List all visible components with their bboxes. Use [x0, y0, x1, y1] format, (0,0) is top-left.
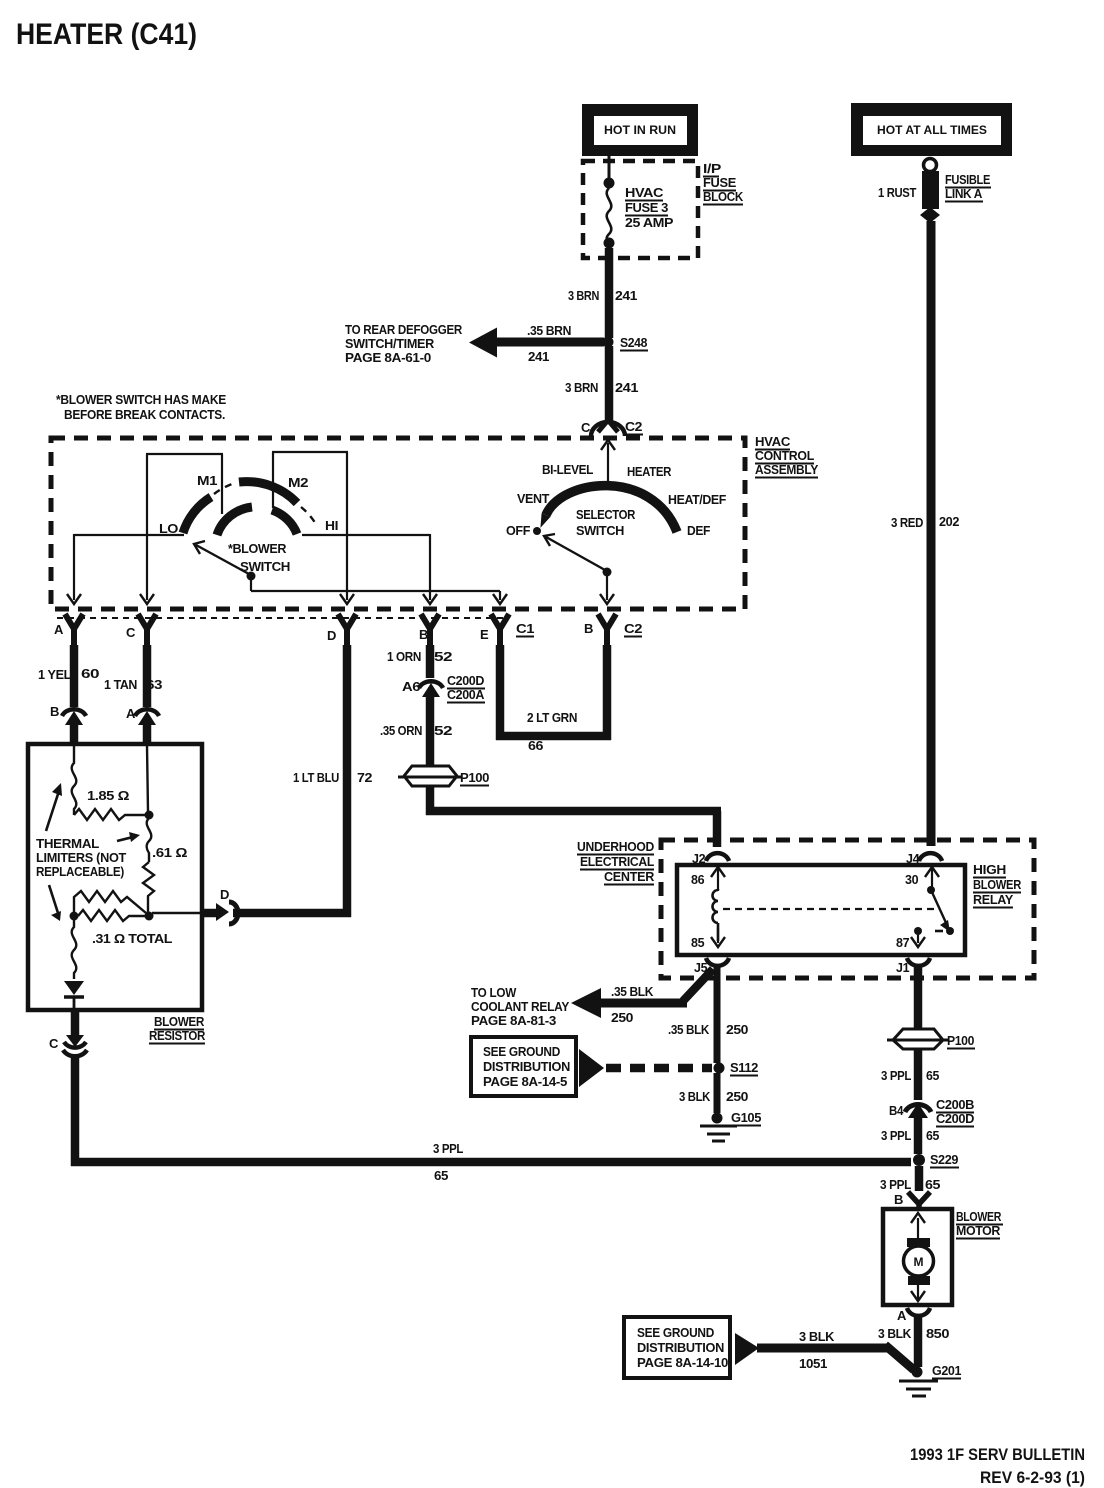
- svg-text:B: B: [894, 1192, 903, 1207]
- blower switch inner contact arc right: [272, 510, 297, 534]
- blower switch inner contact arc left: [217, 507, 252, 535]
- label C200B C200D: [936, 1097, 974, 1127]
- svg-text:.35 ORN: .35 ORN: [380, 723, 422, 738]
- svg-text:PAGE 8A-61-0: PAGE 8A-61-0: [345, 351, 431, 365]
- svg-text:TO REAR DEFOGGER: TO REAR DEFOGGER: [345, 323, 462, 337]
- wire 3 RED 202: [927, 221, 936, 846]
- svg-text:A: A: [126, 706, 136, 721]
- svg-text:87: 87: [896, 936, 910, 950]
- svg-text:J1: J1: [896, 961, 910, 975]
- svg-text:241: 241: [615, 288, 637, 303]
- wire .35 BRN 241 to rear defogger (arrow): [469, 328, 604, 358]
- power box HOT AT ALL TIMES: [851, 103, 1012, 156]
- connector P100 (right): [887, 1029, 949, 1049]
- svg-text:FUSIBLE: FUSIBLE: [945, 172, 991, 187]
- high blower relay box: [677, 865, 965, 955]
- svg-text:P100: P100: [947, 1033, 974, 1048]
- wire 3 PPL 65 resistor to S229: [71, 1058, 911, 1166]
- connector J4: [919, 853, 942, 861]
- resistor 1.85 ohm: [74, 809, 149, 820]
- svg-text:A: A: [897, 1308, 907, 1323]
- diode: [64, 981, 84, 1008]
- ground G105: [700, 1113, 737, 1142]
- wire 1 LT BLU 72 pin D down to resistor pin D: [233, 645, 351, 917]
- wire resistor pin C output: [71, 1010, 80, 1038]
- blower switch wiper arm: [194, 541, 256, 581]
- svg-text:250: 250: [726, 1022, 748, 1037]
- label HVAC CONTROL ASSEMBLY: [755, 435, 819, 478]
- svg-text:3 BLK: 3 BLK: [799, 1329, 835, 1344]
- ground distribution arrow 2: [735, 1333, 759, 1365]
- thermal limiter 1: [72, 746, 77, 815]
- note BLOWER SWITCH HAS MAKE BEFORE BREAK CONTACTS: [56, 393, 226, 422]
- svg-text:65: 65: [925, 1177, 940, 1192]
- svg-text:HEAT/DEF: HEAT/DEF: [668, 492, 726, 507]
- splice S229: [913, 1154, 925, 1166]
- svg-text:241: 241: [528, 349, 549, 364]
- svg-text:REV 6-2-93 (1): REV 6-2-93 (1): [980, 1468, 1085, 1487]
- svg-text:C200D: C200D: [936, 1111, 974, 1126]
- relay pin 87 arrow: [911, 932, 925, 947]
- svg-text:1 LT BLU: 1 LT BLU: [293, 770, 339, 785]
- connector pin C of C1: [138, 614, 156, 649]
- svg-text:2 LT GRN: 2 LT GRN: [527, 710, 577, 725]
- svg-text:VENT: VENT: [517, 491, 549, 506]
- blower switch outer contact arc M2: [239, 482, 297, 503]
- svg-text:1 RUST: 1 RUST: [878, 185, 916, 200]
- wire selector wiper to pin B of C2: [600, 576, 614, 604]
- svg-text:MOTOR: MOTOR: [956, 1223, 1001, 1238]
- svg-text:M: M: [914, 1255, 924, 1269]
- svg-text:M2: M2: [288, 475, 308, 490]
- fusible link A: [920, 159, 940, 224]
- svg-text:SWITCH: SWITCH: [576, 523, 624, 538]
- svg-text:BLOWER: BLOWER: [956, 1209, 1002, 1224]
- svg-text:I/P: I/P: [703, 162, 721, 176]
- wire into resistor box (A leg): [70, 722, 79, 746]
- connector J2: [706, 853, 729, 861]
- node at top of .61 ohm: [145, 811, 154, 820]
- HVAC control assembly dashed box: [51, 438, 745, 609]
- svg-text:C200B: C200B: [936, 1097, 974, 1112]
- blower switch dashed arc segment 2: [301, 507, 317, 526]
- svg-text:G201: G201: [932, 1363, 961, 1378]
- svg-text:HEATER: HEATER: [627, 464, 672, 479]
- connector pin D of C1: [338, 614, 356, 649]
- svg-text:65: 65: [926, 1128, 939, 1143]
- svg-text:65: 65: [434, 1168, 448, 1183]
- svg-text:C1: C1: [516, 621, 534, 636]
- connector pin E of C1: [491, 614, 509, 649]
- svg-text:BEFORE BREAK CONTACTS.: BEFORE BREAK CONTACTS.: [64, 408, 225, 422]
- underhood electrical center dashed box: [661, 840, 1034, 978]
- svg-text:3 PPL: 3 PPL: [881, 1068, 911, 1083]
- svg-text:B: B: [584, 621, 593, 636]
- svg-text:HVAC: HVAC: [755, 435, 790, 449]
- wire 3 PPL 65 C200B to S229: [914, 1115, 923, 1154]
- svg-text:A: A: [54, 622, 64, 637]
- relay mechanical link dashed: [723, 908, 938, 910]
- wire selector arc to connector C2 pin C: [601, 440, 615, 487]
- label C200D C200A: [447, 673, 485, 703]
- svg-text:TO LOW: TO LOW: [471, 986, 516, 1000]
- wire .35 BLK 250 J5 to S112: [714, 966, 721, 1063]
- svg-text:.35 BLK: .35 BLK: [668, 1022, 710, 1037]
- svg-text:C2: C2: [624, 621, 642, 636]
- svg-text:52: 52: [434, 723, 452, 738]
- wire 1 ORN 52 pin B down: [426, 645, 435, 678]
- svg-text:C: C: [581, 420, 591, 435]
- svg-text:3 BLK: 3 BLK: [878, 1326, 912, 1341]
- blower motor box: [883, 1209, 952, 1305]
- svg-text:ELECTRICAL: ELECTRICAL: [580, 855, 655, 869]
- svg-text:S229: S229: [930, 1152, 958, 1167]
- wire 3 PPL 65 S229 to blower motor: [915, 1166, 924, 1191]
- svg-text:SWITCH: SWITCH: [240, 559, 290, 574]
- svg-text:FUSE: FUSE: [703, 176, 736, 190]
- wire 2 LT GRN 66 pin E C1 to pin B C2: [496, 645, 611, 740]
- svg-text:M1: M1: [197, 473, 217, 488]
- motor M symbol: [904, 1213, 934, 1301]
- splice S248: [603, 337, 614, 348]
- wire node to resistor pin D: [152, 912, 204, 914]
- wire .35 ORN 52: [426, 694, 435, 766]
- svg-text:3 BRN: 3 BRN: [565, 380, 598, 395]
- svg-text:D: D: [220, 887, 229, 902]
- wire 1 YEL 60 pin A to blower resistor: [70, 645, 79, 707]
- relay pin 86 arrow: [711, 867, 725, 891]
- wire pin C leg into node: [147, 746, 148, 812]
- svg-text:1 YEL: 1 YEL: [38, 667, 71, 682]
- svg-text:HEATER (C41): HEATER (C41): [16, 18, 197, 51]
- resistor .61 ohm: [143, 862, 154, 913]
- svg-text:CENTER: CENTER: [604, 870, 654, 884]
- box SEE GROUND DISTRIBUTION PAGE 8A-14-5: [471, 1037, 576, 1096]
- svg-text:COOLANT RELAY: COOLANT RELAY: [471, 1000, 570, 1014]
- label I/P FUSE BLOCK: [703, 162, 743, 205]
- svg-text:BLOCK: BLOCK: [703, 190, 743, 204]
- svg-text:RESISTOR: RESISTOR: [149, 1028, 206, 1043]
- blower switch outer contact arc M1: [183, 497, 211, 533]
- wire M2 loop to pin D: [272, 452, 354, 604]
- svg-text:65: 65: [926, 1068, 939, 1083]
- relay pin 85 arrow: [711, 928, 725, 947]
- resistor .31 ohm upper: [74, 891, 146, 914]
- label UNDERHOOD ELECTRICAL CENTER: [577, 840, 655, 885]
- svg-text:RELAY: RELAY: [973, 893, 1014, 907]
- wire wiper feed to pin E: [251, 576, 507, 604]
- svg-text:HI: HI: [325, 518, 338, 533]
- svg-text:PAGE 8A-14-5: PAGE 8A-14-5: [483, 1075, 567, 1089]
- wire 3 BLK 1051 to G201: [757, 1345, 914, 1370]
- svg-text:SEE GROUND: SEE GROUND: [637, 1326, 714, 1340]
- resistor .31 ohm lower: [78, 910, 145, 921]
- svg-text:DISTRIBUTION: DISTRIBUTION: [483, 1060, 570, 1074]
- svg-text:3 BRN: 3 BRN: [568, 288, 599, 303]
- svg-text:B: B: [50, 704, 59, 719]
- thermal limiter 3: [72, 920, 77, 979]
- connector C1 face dashed line: [57, 617, 506, 619]
- svg-text:C: C: [126, 625, 136, 640]
- svg-text:3 PPL: 3 PPL: [881, 1128, 911, 1143]
- relay coil: [713, 889, 719, 941]
- svg-text:J2: J2: [692, 852, 706, 866]
- svg-text:J4: J4: [906, 852, 920, 866]
- svg-text:1051: 1051: [799, 1356, 827, 1371]
- label BLOWER MOTOR: [956, 1209, 1003, 1239]
- svg-text:850: 850: [926, 1326, 949, 1341]
- svg-text:60: 60: [81, 666, 99, 681]
- svg-text:63: 63: [146, 677, 162, 692]
- wire from HOT IN RUN into fuse block: [608, 156, 611, 180]
- svg-text:BI-LEVEL: BI-LEVEL: [542, 462, 593, 477]
- arrow to thermal limiter 3: [49, 885, 61, 921]
- connector pin D of blower resistor: [202, 902, 238, 924]
- relay pin 30 lead: [925, 867, 939, 889]
- connector pin A of blower resistor: [135, 709, 159, 725]
- svg-text:OFF: OFF: [506, 523, 530, 538]
- connector pin B of blower resistor: [62, 709, 86, 725]
- wire 1 TAN 63 pin C to blower resistor: [143, 645, 152, 707]
- svg-text:72: 72: [357, 770, 372, 785]
- svg-text:*BLOWER: *BLOWER: [228, 541, 287, 556]
- svg-text:.35 BLK: .35 BLK: [611, 984, 654, 999]
- splice S112: [714, 1063, 725, 1074]
- blower resistor box: [28, 744, 202, 1010]
- connector pin B of blower motor: [908, 1192, 930, 1210]
- svg-text:250: 250: [726, 1089, 748, 1104]
- svg-text:1 ORN: 1 ORN: [387, 649, 421, 664]
- svg-text:CONTROL: CONTROL: [755, 449, 815, 463]
- svg-text:BLOWER: BLOWER: [154, 1014, 205, 1029]
- wire M1 loop to pin C: [140, 454, 223, 604]
- svg-text:C200D: C200D: [447, 673, 484, 688]
- ground G201: [899, 1367, 938, 1397]
- svg-text:HVAC: HVAC: [625, 185, 664, 200]
- selector wiper arm: [544, 534, 612, 577]
- svg-text:*BLOWER SWITCH HAS MAKE: *BLOWER SWITCH HAS MAKE: [56, 393, 226, 407]
- svg-text:D: D: [327, 628, 336, 643]
- svg-text:ASSEMBLY: ASSEMBLY: [755, 463, 819, 477]
- connector pin B of C2: [598, 614, 616, 649]
- label HVAC FUSE 3 25 AMP: [625, 185, 674, 230]
- connector C2 pin C at HVAC control assembly: [591, 420, 625, 436]
- label FUSIBLE LINK A: [945, 172, 991, 202]
- svg-text:BLOWER: BLOWER: [973, 878, 1021, 892]
- svg-text:P100: P100: [460, 770, 489, 785]
- svg-text:DISTRIBUTION: DISTRIBUTION: [637, 1341, 724, 1355]
- svg-text:25 AMP: 25 AMP: [625, 215, 674, 230]
- svg-text:THERMAL: THERMAL: [36, 837, 100, 851]
- svg-text:REPLACEABLE): REPLACEABLE): [36, 865, 124, 879]
- svg-text:S248: S248: [620, 335, 647, 350]
- svg-text:C200A: C200A: [447, 687, 485, 702]
- note TO LOW COOLANT RELAY PAGE 8A-81-3: [471, 986, 570, 1028]
- label SELECTOR SWITCH: [576, 507, 636, 538]
- selector OFF contact dot: [533, 527, 541, 535]
- svg-text:.61 Ω: .61 Ω: [152, 845, 187, 860]
- wire into resistor box (C leg): [143, 722, 152, 746]
- wire 3 PPL 65 P100 to C200B: [914, 1049, 923, 1100]
- svg-text:C: C: [49, 1036, 59, 1051]
- svg-text:LO: LO: [159, 521, 178, 536]
- label *BLOWER SWITCH: [228, 541, 290, 574]
- svg-text:S112: S112: [730, 1060, 758, 1075]
- svg-text:HOT AT ALL TIMES: HOT AT ALL TIMES: [877, 125, 987, 137]
- connector pin A of C1: [65, 614, 83, 649]
- note TO REAR DEFOGGER SWITCH/TIMER PAGE 8A-61-0: [345, 323, 462, 365]
- arrow to thermal limiter 2: [117, 832, 140, 842]
- svg-text:SWITCH/TIMER: SWITCH/TIMER: [345, 337, 434, 351]
- svg-text:A6: A6: [402, 679, 420, 694]
- svg-text:.31 Ω TOTAL: .31 Ω TOTAL: [92, 931, 172, 946]
- svg-text:C2: C2: [625, 419, 642, 434]
- svg-text:.35 BRN: .35 BRN: [527, 323, 571, 338]
- svg-text:3 PPL: 3 PPL: [433, 1141, 463, 1156]
- connector pin C of blower resistor: [63, 1035, 87, 1056]
- svg-text:241: 241: [615, 380, 638, 395]
- svg-text:66: 66: [528, 738, 543, 753]
- connector A6 C200D C200A: [419, 681, 443, 697]
- connector pin B of C1: [421, 614, 439, 649]
- svg-text:E: E: [480, 627, 489, 642]
- connector P100 (left): [398, 766, 462, 786]
- svg-text:202: 202: [939, 514, 959, 529]
- svg-text:DEF: DEF: [687, 523, 710, 538]
- arrow to thermal limiter 1: [46, 783, 62, 831]
- svg-text:B: B: [419, 627, 428, 642]
- relay switch blade: [914, 886, 954, 935]
- svg-text:SELECTOR: SELECTOR: [576, 507, 636, 522]
- thermal limiter 2: [147, 818, 152, 862]
- svg-text:250: 250: [611, 1010, 633, 1025]
- svg-text:LINK A: LINK A: [945, 186, 983, 201]
- connector J1: [907, 958, 930, 966]
- svg-text:1.85 Ω: 1.85 Ω: [87, 788, 129, 803]
- svg-text:HIGH: HIGH: [973, 863, 1006, 877]
- dashed wire to S112: [606, 1064, 712, 1073]
- svg-text:G105: G105: [731, 1110, 761, 1125]
- svg-text:PAGE 8A-81-3: PAGE 8A-81-3: [471, 1014, 556, 1028]
- svg-text:UNDERHOOD: UNDERHOOD: [577, 840, 654, 854]
- I/P fuse block dashed box: [583, 161, 698, 258]
- label BLOWER RESISTOR: [149, 1014, 206, 1044]
- svg-text:52: 52: [434, 649, 452, 664]
- wire .35 ORN to J2 of underhood electrical center: [426, 786, 721, 847]
- connector J5: [706, 958, 729, 966]
- wire HI to pin B: [302, 534, 437, 604]
- svg-text:1993 1F SERV BULLETIN: 1993 1F SERV BULLETIN: [910, 1445, 1085, 1464]
- wire 3 BRN 241 lower segment: [605, 346, 614, 421]
- wire 3 BLK 850 motor to G201: [914, 1315, 923, 1367]
- svg-text:85: 85: [691, 936, 705, 950]
- svg-text:PAGE 8A-14-10: PAGE 8A-14-10: [637, 1356, 728, 1370]
- svg-text:HOT IN RUN: HOT IN RUN: [604, 125, 676, 137]
- fuse HVAC FUSE 3 25 AMP: [604, 178, 615, 249]
- svg-text:3 RED: 3 RED: [891, 515, 923, 530]
- svg-text:3 BLK: 3 BLK: [679, 1089, 711, 1104]
- connector B4 C200B C200D: [905, 1103, 931, 1118]
- svg-text:SEE GROUND: SEE GROUND: [483, 1045, 560, 1059]
- wire 3 BRN 241 upper segment: [605, 248, 614, 338]
- connector pin A of blower motor: [907, 1308, 930, 1316]
- label HIGH BLOWER RELAY: [973, 863, 1021, 908]
- wire J1 to P100: [914, 966, 923, 1030]
- node left of .31 ohm: [70, 912, 79, 921]
- svg-text:86: 86: [691, 873, 705, 887]
- power box HOT IN RUN: [582, 104, 698, 156]
- blower switch dashed arc segment 1: [214, 484, 232, 494]
- box SEE GROUND DISTRIBUTION PAGE 8A-14-10: [624, 1317, 730, 1378]
- svg-text:FUSE 3: FUSE 3: [625, 200, 668, 215]
- selector switch contact arc: [546, 486, 677, 532]
- wire LO to pin A: [67, 534, 184, 604]
- svg-text:30: 30: [905, 873, 919, 887]
- ground distribution arrow: [579, 1049, 604, 1087]
- node at bottom of .61 ohm: [145, 912, 154, 921]
- svg-text:B4: B4: [889, 1103, 904, 1118]
- svg-text:LIMITERS (NOT: LIMITERS (NOT: [36, 851, 127, 865]
- wire .35 BLK branch to low coolant relay: [571, 969, 713, 1018]
- svg-text:1 TAN: 1 TAN: [104, 677, 137, 692]
- wire 3 BLK 250 S112 to G105: [714, 1073, 721, 1113]
- svg-text:3 PPL: 3 PPL: [880, 1177, 911, 1192]
- label THERMAL LIMITERS (NOT REPLACEABLE): [36, 837, 127, 879]
